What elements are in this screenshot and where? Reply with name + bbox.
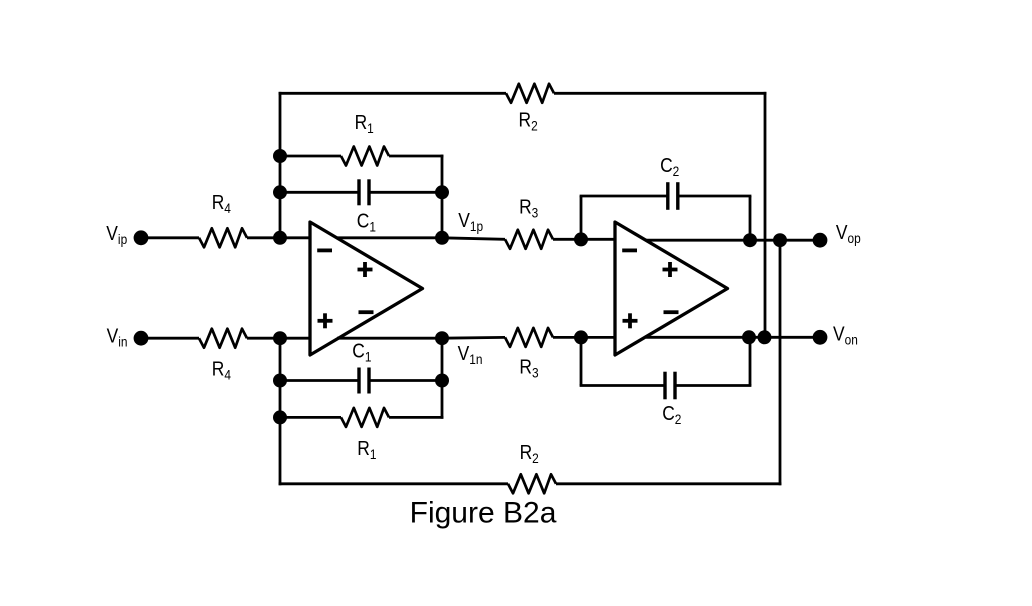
svg-text:Vop: Vop (836, 222, 861, 246)
node: junction dot, left rail / C1 bottom (273, 374, 287, 388)
node: junction dot, left rail / R1 bottom (273, 410, 287, 424)
svg-text:Von: Von (833, 323, 858, 347)
node: junction dot, Vop line / bottom feedback vertical (773, 233, 787, 247)
svg-text:R2: R2 (519, 109, 538, 133)
svg-text:R3: R3 (519, 356, 538, 380)
wire: C2 top row, right lead (678, 195, 752, 198)
node: junction dot, left rail / C1 top (273, 185, 287, 199)
op-amp U2 (second stage, fully differential) (615, 222, 728, 355)
wire: C2 top row, left lead (580, 195, 668, 198)
wire: U2 negative output to Von terminal (646, 336, 820, 339)
wire: top feedback horizontal, left segment (279, 92, 506, 95)
svg-text:R1: R1 (357, 438, 376, 462)
wire: ladder right vertical, top half (441, 155, 444, 238)
wire: R1 top row, right lead (389, 155, 443, 158)
wire: C2 bottom loop, left vertical (580, 337, 583, 385)
wire: R3 top to U2 inverting input (553, 238, 616, 241)
resistor R2 (bottom feedback) (508, 474, 556, 493)
wire: right vertical from top feedback down to Von node (764, 92, 767, 337)
node: Vin input terminal dot (134, 331, 149, 346)
wire: bottom feedback horizontal, left segment (279, 482, 508, 485)
capacitor C2 (top feedback of U2) (666, 182, 669, 210)
op-amp U1 (first stage, fully differential) (310, 222, 423, 355)
node: junction dot, left rail / R1 top (273, 149, 287, 163)
wire: C1 top row, left lead (280, 191, 359, 194)
node: junction dot, Von line / top feedback vertical (758, 330, 772, 344)
wire: U1 positive output to node V1p (337, 236, 442, 239)
wire: left rail upper vertical (279, 92, 282, 238)
wire: R3 bottom to U2 non-inverting input (553, 336, 616, 339)
node: junction dot, U2 non-inverting input / C2 bottom (574, 330, 588, 344)
wire: C2 bottom row, left lead (580, 384, 665, 387)
svg-text:R4: R4 (212, 192, 231, 216)
resistor R4 (Vip input) (199, 228, 247, 247)
svg-text:Vip: Vip (106, 223, 127, 247)
wire: vertical from Vop node down to bottom feedback (779, 240, 782, 485)
svg-text:C2: C2 (662, 403, 681, 427)
wire: C2 top loop, left vertical (580, 196, 583, 239)
node V1p junction dot (435, 231, 449, 245)
wire: U2 positive output to Vop terminal (646, 239, 820, 242)
wire: V1p to R3 top (442, 238, 505, 240)
wire: C1 bottom row, left lead (280, 379, 359, 382)
node: junction dot, ladder right / C1 bottom (435, 374, 449, 388)
svg-text:Vin: Vin (107, 325, 128, 349)
resistor R3 (bottom) (505, 328, 553, 347)
wire: U1 negative output to node V1n (337, 337, 442, 340)
svg-text:Figure B2a: Figure B2a (410, 496, 557, 529)
svg-text:R4: R4 (212, 358, 231, 382)
svg-text:R1: R1 (355, 112, 374, 136)
node: junction dot, C2 bottom right leg / Von line (742, 330, 756, 344)
svg-text:R2: R2 (520, 442, 539, 466)
resistor R3 (top) (505, 230, 553, 249)
node: junction dot, C2 top right leg / Vop line (743, 233, 757, 247)
wire: R1 top row, left lead (280, 155, 341, 158)
wire: V1n to R3 bottom (442, 336, 505, 340)
node: Vop output terminal dot (813, 233, 828, 248)
svg-text:C1: C1 (352, 340, 371, 364)
wire: bottom feedback horizontal, right segment (556, 482, 781, 485)
capacitor C1 (bottom feedback of U1) (357, 368, 360, 394)
wire: R1 bottom row, left lead (280, 416, 341, 419)
resistor R2 (top feedback) (506, 84, 554, 103)
node: junction dot, U2 inverting input / C2 top (574, 232, 588, 246)
capacitor C1 (top feedback of U1) (357, 179, 360, 205)
wire: C1 top row, right lead (369, 191, 442, 194)
svg-text:R3: R3 (519, 196, 538, 220)
wire: C2 bottom row, right lead (675, 384, 751, 387)
svg-text:C1: C1 (357, 210, 376, 234)
node: junction dot, left rail / U1 inverting input (273, 231, 287, 245)
node: Vip input terminal dot (134, 230, 149, 245)
wire: left rail lower vertical (279, 338, 282, 485)
node: junction dot, left rail / U1 non-inverting input (273, 331, 287, 345)
wire: R4 to U1 inverting input (247, 236, 311, 239)
svg-text:V1p: V1p (458, 210, 483, 234)
node: Von output terminal dot (813, 330, 828, 345)
wire: Vip terminal to R4 (146, 236, 199, 239)
wire: C1 bottom row, right lead (369, 379, 442, 382)
capacitor C2 (bottom feedback of U2) (663, 372, 666, 400)
resistor R1 (top feedback of U1) (341, 147, 389, 166)
wire: C2 bottom loop, right vertical (749, 337, 752, 385)
resistor R1 (bottom feedback of U1) (341, 408, 389, 427)
node V1n junction dot (435, 331, 449, 345)
wire: C2 top loop, right vertical (749, 196, 752, 240)
resistor R4 (Vin input) (199, 329, 247, 348)
svg-text:V1n: V1n (458, 343, 483, 367)
wire: R1 bottom row, right lead (389, 416, 443, 419)
wire: top feedback horizontal, right segment (554, 92, 766, 95)
wire: Vin terminal to R4 (146, 337, 199, 340)
node: junction dot, ladder right / C1 top (435, 185, 449, 199)
svg-text:C2: C2 (660, 155, 679, 179)
wire: R4 to U1 non-inverting input (247, 337, 311, 340)
wire: ladder right vertical, bottom half (441, 338, 444, 419)
